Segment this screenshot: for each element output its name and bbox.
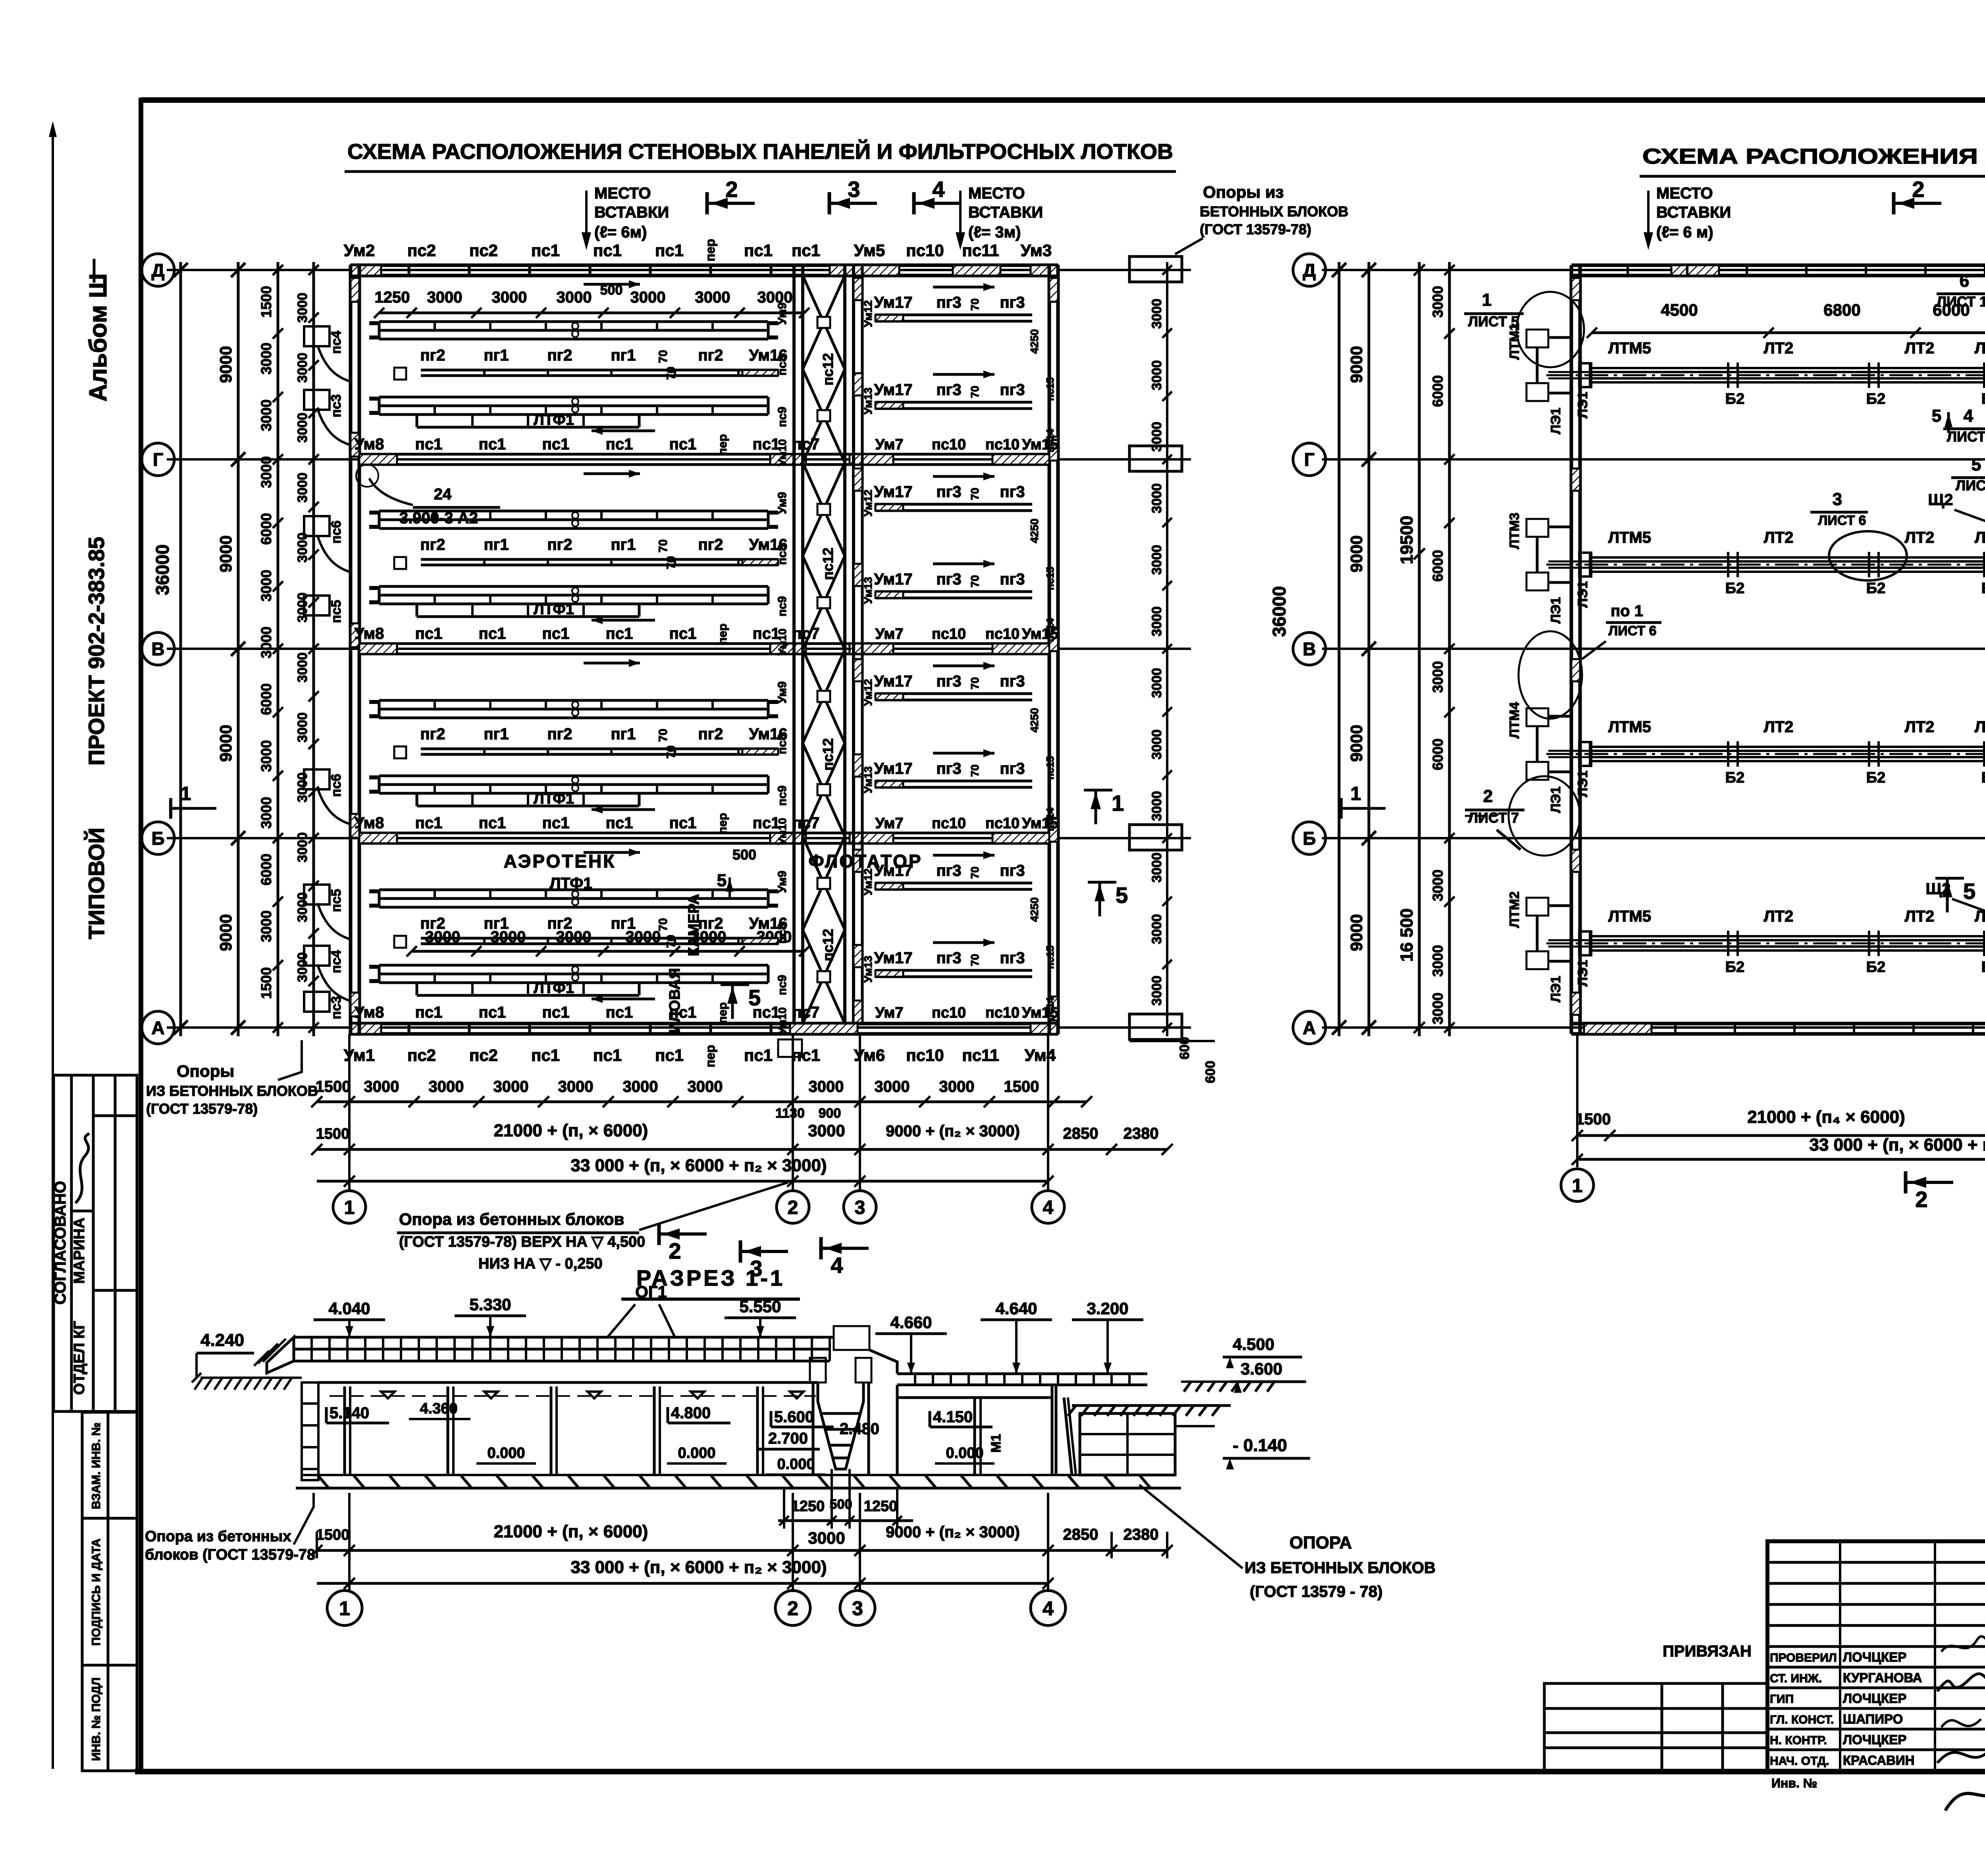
svg-text:5.550: 5.550 bbox=[739, 1297, 781, 1316]
svg-text:пс14: пс14 bbox=[1044, 429, 1056, 453]
svg-text:Ум8: Ум8 bbox=[355, 436, 384, 453]
section title Разрез 1-1 bbox=[621, 1265, 800, 1299]
svg-text:Д: Д bbox=[1303, 260, 1316, 281]
svg-text:пг3: пг3 bbox=[1000, 381, 1025, 399]
left trim line with arrow bbox=[49, 121, 57, 1769]
section roof slab band with cells bbox=[254, 1337, 830, 1373]
left plan outer wall top bbox=[351, 265, 1058, 276]
left plan note 24 / 3.900-3 А2 bbox=[356, 465, 500, 527]
svg-text:70: 70 bbox=[657, 918, 670, 931]
svg-text:5: 5 bbox=[1116, 883, 1128, 908]
left plan right rotated dim columns 3000 bbox=[1129, 262, 1218, 1083]
svg-text:3: 3 bbox=[848, 177, 860, 202]
svg-text:пг1: пг1 bbox=[484, 915, 509, 932]
lower margin table (Взам.инв / Подпись и дата / Инв.№ подл) bbox=[82, 1412, 137, 1771]
svg-text:24: 24 bbox=[434, 486, 452, 503]
svg-text:3.600: 3.600 bbox=[1241, 1359, 1282, 1378]
svg-text:1: 1 bbox=[1112, 791, 1124, 816]
svg-text:4.040: 4.040 bbox=[328, 1299, 370, 1318]
svg-text:ЛТФ1: ЛТФ1 bbox=[534, 791, 574, 807]
svg-text:ЛТМ5: ЛТМ5 bbox=[1608, 908, 1651, 925]
svg-text:Б2: Б2 bbox=[1981, 959, 1985, 976]
svg-text:Ум2: Ум2 bbox=[344, 241, 375, 260]
svg-text:ЛИСТ 7: ЛИСТ 7 bbox=[1468, 810, 1519, 826]
svg-text:Ум9: Ум9 bbox=[776, 492, 789, 514]
left margin note Опоры из бетонных блоков bbox=[146, 1040, 318, 1117]
svg-text:пг2: пг2 bbox=[547, 725, 572, 743]
svg-text:пер: пер bbox=[716, 813, 729, 834]
left plan wall strip right of chamber bbox=[854, 265, 862, 1024]
svg-text:3000: 3000 bbox=[1149, 852, 1164, 883]
svg-text:пс1: пс1 bbox=[606, 814, 633, 832]
svg-text:ЛТ2: ЛТ2 bbox=[1905, 908, 1935, 925]
svg-text:9000: 9000 bbox=[216, 725, 235, 762]
svg-text:3000: 3000 bbox=[258, 627, 274, 658]
svg-text:2: 2 bbox=[787, 1597, 798, 1620]
svg-text:АЭРОТЕНК: АЭРОТЕНК bbox=[504, 851, 616, 871]
right plan callout 2 лист 7 bbox=[1465, 787, 1524, 826]
svg-text:СХЕМА РАСПОЛОЖЕНИЯ ЛОТКОВ: СХЕМА РАСПОЛОЖЕНИЯ ЛОТКОВ И БАЛОК bbox=[1642, 145, 1985, 168]
svg-text:ЛИСТ 9: ЛИСТ 9 bbox=[1956, 477, 1985, 494]
svg-text:3000: 3000 bbox=[295, 892, 310, 922]
svg-text:3000: 3000 bbox=[258, 456, 274, 488]
svg-text:пг2: пг2 bbox=[698, 347, 723, 364]
svg-text:пг3: пг3 bbox=[936, 294, 961, 311]
section dim row 1250 500 1250 bbox=[778, 1469, 913, 1529]
svg-text:пс1: пс1 bbox=[792, 241, 820, 260]
svg-text:пг3: пг3 bbox=[936, 862, 961, 879]
svg-text:Ум8: Ум8 bbox=[355, 625, 384, 642]
svg-text:6800: 6800 bbox=[1823, 301, 1860, 319]
svg-text:3000: 3000 bbox=[939, 1078, 975, 1095]
svg-text:Ум4: Ум4 bbox=[1025, 1046, 1056, 1064]
section overall dim 33000 bbox=[317, 1558, 1054, 1589]
svg-text:5: 5 bbox=[717, 871, 727, 890]
svg-text:Ум12: Ум12 bbox=[862, 300, 874, 327]
svg-text:пс1: пс1 bbox=[479, 1004, 506, 1021]
right plan section marks 2 3 4 top bbox=[1894, 177, 1985, 214]
left plan bay 4 panel assemblies bbox=[355, 848, 820, 1024]
svg-text:3000: 3000 bbox=[258, 343, 274, 374]
svg-text:пг2: пг2 bbox=[698, 725, 723, 743]
svg-text:ОПОРА: ОПОРА bbox=[1289, 1533, 1352, 1552]
svg-text:А: А bbox=[151, 1018, 164, 1038]
right plan callout 6 лист 12 bbox=[1937, 265, 1985, 310]
svg-text:Б2: Б2 bbox=[1866, 769, 1885, 786]
svg-text:пс14: пс14 bbox=[1044, 808, 1056, 831]
svg-text:Щ2: Щ2 bbox=[1928, 491, 1953, 509]
svg-text:6000: 6000 bbox=[258, 513, 274, 545]
svg-text:пс12: пс12 bbox=[820, 548, 836, 580]
svg-text:5: 5 bbox=[748, 985, 761, 1010]
section tank body outline bbox=[296, 1382, 1181, 1488]
svg-text:6000: 6000 bbox=[258, 854, 274, 885]
svg-text:пг1: пг1 bbox=[611, 725, 636, 743]
svg-text:9000: 9000 bbox=[1347, 535, 1366, 572]
svg-text:4.660: 4.660 bbox=[890, 1313, 932, 1332]
svg-text:70: 70 bbox=[657, 539, 670, 552]
svg-text:пс15: пс15 bbox=[1044, 945, 1056, 969]
svg-text:БЕТОННЫХ БЛОКОВ: БЕТОННЫХ БЛОКОВ bbox=[1200, 203, 1348, 220]
left plan section cut mark 1 left side bbox=[171, 783, 216, 819]
right plan note Место вставки l=6м bbox=[1644, 185, 1731, 250]
svg-text:ЛТМ4: ЛТМ4 bbox=[1507, 702, 1522, 738]
svg-text:4.360: 4.360 bbox=[420, 1400, 457, 1417]
left plan bottom dimension 21000 3000 9000 2850 2380 bbox=[311, 1121, 1173, 1155]
svg-text:3000: 3000 bbox=[1149, 422, 1164, 452]
svg-text:пс1: пс1 bbox=[542, 436, 570, 453]
svg-text:НИЗ НА ▽ - 0,250: НИЗ НА ▽ - 0,250 bbox=[478, 1255, 603, 1272]
svg-text:Г: Г bbox=[153, 449, 163, 470]
svg-text:ЛТ2: ЛТ2 bbox=[1764, 718, 1794, 736]
svg-text:70: 70 bbox=[657, 350, 670, 363]
svg-text:Б2: Б2 bbox=[1866, 580, 1885, 597]
svg-text:пс1: пс1 bbox=[415, 436, 443, 453]
svg-text:пс11: пс11 bbox=[962, 241, 999, 260]
svg-text:3000: 3000 bbox=[1149, 360, 1164, 390]
svg-text:2.700: 2.700 bbox=[768, 1430, 808, 1447]
svg-text:МЕСТО: МЕСТО bbox=[968, 185, 1025, 202]
section internal elevation labels bbox=[326, 1400, 1004, 1475]
svg-text:Ум10: Ум10 bbox=[776, 818, 788, 845]
svg-text:3000: 3000 bbox=[295, 832, 310, 862]
svg-text:2380: 2380 bbox=[1124, 1125, 1159, 1142]
svg-text:600: 600 bbox=[1203, 1061, 1218, 1084]
svg-text:3000: 3000 bbox=[1149, 729, 1164, 760]
svg-text:3000: 3000 bbox=[1149, 299, 1164, 329]
svg-text:Опоры из: Опоры из bbox=[1203, 183, 1284, 201]
svg-text:2850: 2850 bbox=[1063, 1125, 1098, 1142]
svg-text:ЛТФ1: ЛТФ1 bbox=[534, 980, 574, 997]
svg-text:70: 70 bbox=[969, 386, 981, 398]
svg-text:пс1: пс1 bbox=[479, 814, 506, 832]
right plan axis circles 1 2 3 4 bottom bbox=[1561, 1169, 1985, 1201]
svg-text:ЛЭ1: ЛЭ1 bbox=[1575, 581, 1590, 608]
svg-text:Ум10: Ум10 bbox=[776, 439, 788, 466]
svg-text:Ум10: Ум10 bbox=[776, 629, 788, 656]
svg-text:пс1: пс1 bbox=[669, 1004, 697, 1021]
svg-text:пг3: пг3 bbox=[1000, 949, 1025, 967]
svg-text:500: 500 bbox=[732, 846, 756, 863]
svg-text:Ум17: Ум17 bbox=[874, 381, 913, 399]
svg-text:пс1: пс1 bbox=[479, 436, 506, 453]
svg-text:ИЛОВАЯ: ИЛОВАЯ bbox=[667, 968, 683, 1033]
svg-text:9000: 9000 bbox=[1347, 725, 1366, 762]
svg-text:ЛТФ1: ЛТФ1 bbox=[534, 412, 574, 428]
svg-text:9000: 9000 bbox=[216, 535, 235, 572]
svg-text:4.800: 4.800 bbox=[671, 1404, 711, 1422]
svg-text:пс1: пс1 bbox=[606, 625, 633, 642]
svg-text:пс1: пс1 bbox=[542, 625, 570, 642]
right plan outer wall top bbox=[1571, 265, 1985, 276]
svg-text:3000: 3000 bbox=[364, 1078, 399, 1095]
left plan section cut marks 1 and 5 right side bbox=[717, 790, 1128, 1019]
svg-text:ОТДЕЛ КГ: ОТДЕЛ КГ bbox=[71, 1321, 88, 1395]
svg-text:9000 + (п₂ × 3000): 9000 + (п₂ × 3000) bbox=[886, 1523, 1020, 1541]
svg-text:70: 70 bbox=[969, 954, 981, 966]
svg-text:Ум7: Ум7 bbox=[875, 436, 904, 453]
svg-text:М1: М1 bbox=[989, 1434, 1004, 1452]
svg-text:пс1: пс1 bbox=[744, 241, 773, 260]
svg-text:3: 3 bbox=[1833, 490, 1842, 509]
svg-text:(ГОСТ 13579 - 78): (ГОСТ 13579 - 78) bbox=[1250, 1583, 1383, 1600]
svg-text:2850: 2850 bbox=[1063, 1526, 1098, 1543]
svg-text:ЛТ2: ЛТ2 bbox=[1764, 529, 1794, 546]
svg-text:Г: Г bbox=[1304, 449, 1314, 470]
svg-text:СХЕМА РАСПОЛОЖЕНИЯ СТЕНОВЫХ: СХЕМА РАСПОЛОЖЕНИЯ СТЕНОВЫХ ПАНЕЛЕЙ И ФИ… bbox=[347, 139, 1173, 164]
svg-text:Ум7: Ум7 bbox=[875, 1005, 904, 1021]
svg-text:пс7: пс7 bbox=[792, 436, 820, 453]
svg-text:Ум9: Ум9 bbox=[776, 303, 789, 325]
svg-text:3000: 3000 bbox=[688, 1078, 723, 1095]
svg-text:3000: 3000 bbox=[258, 740, 274, 772]
svg-text:Б2: Б2 bbox=[1725, 580, 1744, 597]
svg-text:пг1: пг1 bbox=[484, 536, 509, 553]
svg-text:- 0.140: - 0.140 bbox=[1233, 1436, 1287, 1455]
right plan cut mark 1T left bbox=[1341, 783, 1386, 819]
title: Схема расположения лотков и балок bbox=[1640, 145, 1985, 176]
svg-text:пс12: пс12 bbox=[820, 738, 836, 771]
svg-text:Ум7: Ум7 bbox=[875, 815, 904, 832]
svg-text:пг2: пг2 bbox=[420, 915, 445, 932]
right plan axis circles Д Г В Б А bbox=[1293, 254, 1326, 1044]
left plan bottom dimension chain 3000s bbox=[311, 1034, 1092, 1191]
section dim chain 1500 21000 3000 9000 2850 2380 bbox=[311, 1493, 1173, 1592]
right plan callout 3 лист 6 circled bbox=[1810, 490, 1907, 580]
svg-text:ШАПИРО: ШАПИРО bbox=[1843, 1712, 1903, 1726]
svg-text:Опора из бетонных: Опора из бетонных bbox=[145, 1528, 291, 1545]
svg-text:6000: 6000 bbox=[1430, 550, 1446, 582]
svg-text:пс1: пс1 bbox=[792, 1046, 820, 1064]
svg-text:пс10: пс10 bbox=[985, 815, 1019, 832]
svg-text:Д: Д bbox=[152, 260, 165, 281]
svg-text:Ум13: Ум13 bbox=[862, 388, 874, 415]
svg-text:В: В bbox=[151, 639, 164, 659]
section axis circles 1 2 3 4 bbox=[327, 1591, 1066, 1625]
svg-text:36000: 36000 bbox=[152, 544, 173, 595]
svg-text:5: 5 bbox=[1972, 455, 1981, 474]
svg-text:Ум9: Ум9 bbox=[776, 681, 789, 704]
section central funnel bbox=[810, 1358, 871, 1475]
svg-text:3000: 3000 bbox=[258, 399, 274, 431]
right plan Щ1 Щ2 labels bbox=[1925, 355, 1985, 954]
svg-text:пс12: пс12 bbox=[820, 929, 836, 961]
svg-text:пс8: пс8 bbox=[776, 355, 789, 376]
svg-text:4: 4 bbox=[1043, 1597, 1054, 1620]
svg-text:пг3: пг3 bbox=[1000, 294, 1025, 311]
svg-text:пс10: пс10 bbox=[932, 815, 966, 832]
svg-text:пг3: пг3 bbox=[936, 673, 961, 690]
svg-text:0.000: 0.000 bbox=[678, 1445, 715, 1461]
svg-text:ЛТМ3: ЛТМ3 bbox=[1507, 513, 1522, 549]
svg-text:3000: 3000 bbox=[1149, 668, 1164, 698]
svg-text:1500: 1500 bbox=[258, 286, 274, 318]
svg-text:пг2: пг2 bbox=[420, 347, 445, 364]
left plan bay 2 flotator channel rows bbox=[874, 472, 1059, 642]
svg-text:пс14: пс14 bbox=[1044, 997, 1056, 1021]
svg-text:пс1: пс1 bbox=[531, 241, 560, 260]
svg-text:3000: 3000 bbox=[1430, 661, 1446, 693]
svg-text:пер: пер bbox=[703, 1045, 717, 1068]
section elevated box at insert bbox=[830, 1326, 897, 1374]
svg-text:МАРИНА: МАРИНА bbox=[71, 1218, 88, 1284]
left plan rotated labels flanking chamber bbox=[776, 300, 1056, 1034]
left plan wall pilasters пс3..пс6 on left side bbox=[304, 326, 349, 1019]
svg-text:пс4: пс4 bbox=[329, 331, 344, 354]
svg-text:Инв. №: Инв. № bbox=[1771, 1776, 1817, 1790]
svg-text:ЛТ2: ЛТ2 bbox=[1905, 339, 1935, 357]
svg-text:2.480: 2.480 bbox=[840, 1420, 879, 1438]
svg-text:900: 900 bbox=[819, 1106, 841, 1121]
svg-text:3000: 3000 bbox=[258, 797, 274, 829]
svg-text:Ум12: Ум12 bbox=[862, 490, 874, 517]
svg-text:Б2: Б2 bbox=[1725, 391, 1744, 407]
svg-text:Ум12: Ум12 bbox=[862, 868, 874, 895]
right plan cut mark 5 inner bbox=[1932, 406, 1975, 912]
svg-text:ВСТАВКИ: ВСТАВКИ bbox=[1656, 204, 1731, 221]
svg-text:пг3: пг3 bbox=[1000, 862, 1025, 879]
svg-text:ИЗ БЕТОННЫХ БЛОКОВ: ИЗ БЕТОННЫХ БЛОКОВ bbox=[146, 1083, 318, 1099]
svg-text:Б: Б bbox=[151, 828, 164, 849]
svg-text:по 1: по 1 bbox=[1611, 602, 1643, 620]
title block привязан area bbox=[1544, 1643, 1767, 1772]
left plan note Место вставки l=6м bbox=[582, 185, 669, 250]
svg-text:19500: 19500 bbox=[1397, 516, 1416, 564]
svg-text:Опоры: Опоры bbox=[177, 1062, 234, 1080]
svg-text:Опора из бетонных блоков: Опора из бетонных блоков bbox=[399, 1210, 624, 1228]
svg-text:пс6: пс6 bbox=[329, 521, 344, 544]
left plan bay 2 panel assemblies bbox=[355, 470, 820, 645]
svg-text:пг3: пг3 bbox=[936, 381, 961, 399]
svg-text:пс10: пс10 bbox=[906, 241, 944, 260]
right plan callout 1 лист 5 bbox=[1464, 290, 1524, 330]
right plan callout по 1 лист 6 bbox=[1582, 602, 1661, 659]
right plan section marks 2 3 4 bottom bbox=[1906, 1171, 1985, 1224]
svg-text:пс8: пс8 bbox=[776, 544, 789, 565]
svg-text:пг3: пг3 bbox=[1000, 673, 1025, 690]
svg-text:ИНВ. № ПОДЛ: ИНВ. № ПОДЛ bbox=[90, 1677, 103, 1761]
left plan vertical dimension chain 3000 inner bbox=[295, 262, 319, 1036]
svg-text:КРАСАВИН: КРАСАВИН bbox=[1843, 1753, 1915, 1768]
svg-text:4500: 4500 bbox=[1661, 301, 1698, 319]
svg-text:4: 4 bbox=[1964, 406, 1973, 426]
svg-text:ЛОЧЦКЕР: ЛОЧЦКЕР bbox=[1843, 1732, 1906, 1747]
left plan bay 4 flotator channel rows bbox=[874, 851, 1059, 1021]
svg-text:пер: пер bbox=[716, 434, 729, 455]
svg-text:(ГОСТ 13579-78): (ГОСТ 13579-78) bbox=[146, 1101, 258, 1117]
svg-text:ЛОЧЦКЕР: ЛОЧЦКЕР bbox=[1843, 1650, 1906, 1664]
left plan section marks 2 3 4 top bbox=[707, 177, 962, 214]
svg-text:пс4: пс4 bbox=[329, 950, 344, 973]
svg-text:4250: 4250 bbox=[1028, 708, 1041, 733]
svg-text:пс3: пс3 bbox=[329, 394, 344, 417]
svg-text:ЛТМ5: ЛТМ5 bbox=[1608, 529, 1651, 546]
svg-text:пс15: пс15 bbox=[1044, 756, 1056, 779]
left plan zone labels Аэротенк / Флотатор bbox=[504, 846, 923, 892]
svg-text:пг3: пг3 bbox=[1000, 760, 1025, 777]
svg-text:ГИП: ГИП bbox=[1770, 1693, 1794, 1706]
svg-text:ЛТМ5: ЛТМ5 bbox=[1608, 718, 1651, 736]
svg-text:3000: 3000 bbox=[808, 1121, 845, 1140]
svg-text:4.640: 4.640 bbox=[995, 1299, 1037, 1318]
svg-text:пс10: пс10 bbox=[932, 626, 966, 642]
svg-text:1130: 1130 bbox=[775, 1106, 805, 1121]
right plan vertical dim 9000 per bay bbox=[1347, 262, 1376, 1036]
right plan callout 4 лист 8 bbox=[1943, 406, 1985, 445]
left plan top labels row Ум2 пс2 ... bbox=[344, 239, 1052, 262]
svg-text:пс8: пс8 bbox=[776, 734, 789, 754]
svg-text:пс1: пс1 bbox=[415, 1004, 443, 1021]
svg-text:Б2: Б2 bbox=[1981, 391, 1985, 407]
svg-text:пс9: пс9 bbox=[776, 785, 789, 806]
left plan support blocks (опоры) right side bbox=[1058, 256, 1182, 1039]
svg-text:пс10: пс10 bbox=[985, 626, 1019, 642]
svg-text:пс2: пс2 bbox=[407, 241, 436, 260]
section note опора из бетонных блоков right bbox=[1139, 1485, 1436, 1600]
left plan bay 1 panel assemblies bbox=[355, 280, 820, 455]
svg-text:пер: пер bbox=[703, 239, 717, 262]
svg-text:0.000: 0.000 bbox=[946, 1445, 983, 1461]
svg-text:(ГОСТ 13579-78) ВЕРХ НА ▽: (ГОСТ 13579-78) ВЕРХ НА ▽ 4,500 bbox=[399, 1234, 645, 1250]
svg-text:9000: 9000 bbox=[1347, 914, 1366, 951]
svg-text:Альбом Ш: Альбом Ш bbox=[85, 273, 112, 401]
right plan axis lines bbox=[1322, 270, 1985, 1028]
svg-text:пс1: пс1 bbox=[542, 814, 570, 832]
svg-text:Н. КОНТР.: Н. КОНТР. bbox=[1770, 1734, 1827, 1747]
svg-text:21000 + (п, × 6000): 21000 + (п, × 6000) bbox=[494, 1121, 648, 1140]
svg-text:3000: 3000 bbox=[809, 1078, 844, 1095]
svg-text:6000: 6000 bbox=[1430, 375, 1446, 407]
svg-text:Б: Б bbox=[1303, 828, 1316, 849]
svg-text:Ум8: Ум8 bbox=[355, 814, 384, 832]
svg-text:пер: пер bbox=[716, 1002, 729, 1023]
left plan bottom labels row Ум1 пс2 ... bbox=[344, 1039, 1056, 1067]
svg-text:5: 5 bbox=[1963, 879, 1975, 904]
svg-text:Ум8: Ум8 bbox=[355, 1004, 384, 1021]
svg-text:4250: 4250 bbox=[1028, 519, 1041, 543]
svg-text:0.000: 0.000 bbox=[777, 1456, 815, 1473]
svg-text:Ум10: Ум10 bbox=[776, 1007, 788, 1034]
svg-text:Б2: Б2 bbox=[1866, 391, 1885, 407]
svg-text:3000: 3000 bbox=[295, 772, 310, 802]
svg-text:ВСТАВКИ: ВСТАВКИ bbox=[968, 204, 1043, 221]
svg-text:пс1: пс1 bbox=[606, 1004, 633, 1021]
svg-text:Ум3: Ум3 bbox=[1021, 241, 1052, 260]
svg-text:блоков (ГОСТ 13579-78: блоков (ГОСТ 13579-78 bbox=[145, 1546, 315, 1563]
right plan vertical dim chain 3000/6000 bbox=[1430, 262, 1455, 1036]
svg-text:3000: 3000 bbox=[427, 289, 463, 306]
svg-text:ПОДПИСЬ И ДАТА: ПОДПИСЬ И ДАТА bbox=[90, 1539, 103, 1646]
svg-text:пс1: пс1 bbox=[655, 1046, 684, 1064]
svg-text:Ум12: Ум12 bbox=[862, 679, 874, 706]
svg-text:ИЗ БЕТОННЫХ БЛОКОВ: ИЗ БЕТОННЫХ БЛОКОВ bbox=[1245, 1559, 1436, 1577]
left plan bay 1 flotator channel rows bbox=[874, 283, 1059, 453]
left plan section marks 2 3 4 bottom bbox=[659, 1223, 869, 1281]
svg-text:33 000 + (п, × 6000 + п₂ × 300: 33 000 + (п, × 6000 + п₂ × 3000) bbox=[570, 1156, 827, 1175]
svg-text:пг3: пг3 bbox=[936, 571, 961, 588]
svg-text:ЛТФ1: ЛТФ1 bbox=[534, 601, 574, 618]
right plan vertical dim 36000 bbox=[1269, 262, 1346, 1036]
right plan main beams ЛТМ5-ЛТ2-ЛТ2-ЛТМ6 rows bbox=[1546, 339, 1985, 407]
svg-text:3000: 3000 bbox=[492, 289, 527, 306]
svg-text:3000: 3000 bbox=[1149, 914, 1164, 944]
right plan outer wall bottom bbox=[1571, 1024, 1985, 1034]
svg-text:ВЗАМ. ИНВ. №: ВЗАМ. ИНВ. № bbox=[90, 1423, 103, 1509]
svg-text:пг3: пг3 bbox=[936, 949, 961, 967]
svg-text:4.240: 4.240 bbox=[200, 1330, 244, 1350]
left plan intermediate axis walls bbox=[359, 454, 1049, 843]
svg-text:0.000: 0.000 bbox=[487, 1445, 525, 1461]
